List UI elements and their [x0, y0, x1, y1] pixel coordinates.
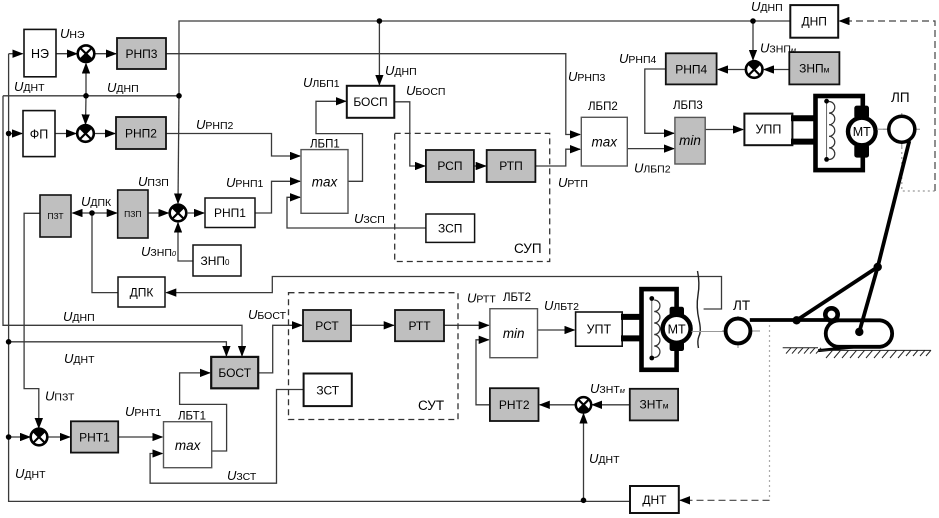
- svg-text:max: max: [175, 438, 202, 453]
- svg-text:СУП: СУП: [514, 241, 542, 256]
- svg-text:ДНП: ДНП: [801, 15, 826, 29]
- label ЛБТ1: [178, 411, 206, 423]
- svg-text:UДНП: UДНП: [107, 80, 139, 95]
- svg-text:UЛБП1: UЛБП1: [303, 75, 340, 90]
- svg-text:UДНП: UДНП: [63, 309, 95, 324]
- svg-text:UДНТ: UДНТ: [589, 451, 620, 466]
- rope junction to pivot: [797, 267, 878, 320]
- label СУП: [514, 241, 542, 256]
- block ЛБП3 min: [675, 117, 705, 164]
- drum break brace: [697, 271, 700, 348]
- svg-text:СУТ: СУТ: [418, 398, 444, 413]
- svg-text:ФП: ФП: [30, 128, 49, 142]
- label UДНТ top left: [14, 79, 45, 94]
- svg-text:min: min: [679, 133, 701, 148]
- wire РНП3 output UРНП3 to ЛБП2: [166, 54, 580, 135]
- block РТТ: [395, 310, 444, 341]
- block РСТ: [303, 310, 351, 341]
- svg-text:UБОСП: UБОСП: [406, 83, 445, 98]
- svg-text:UЗСП: UЗСП: [354, 211, 385, 226]
- wire ДПК output up to УДПК dot: [92, 213, 118, 293]
- label UРТТ: [467, 291, 496, 306]
- wire РНТ2 output to ЛБТ2: [476, 340, 490, 405]
- wire ЗСП output UЗСП to ЛБП1: [287, 197, 426, 228]
- wire dot УДПК to ПЗП: [92, 212, 117, 214]
- block БОСП: [347, 86, 395, 118]
- wire ЛБП3 output to УПП: [705, 129, 743, 131]
- wire UДНТ dot to sum5: [9, 436, 30, 438]
- block ПЗТ: [40, 195, 71, 237]
- block РНТ2: [490, 388, 539, 421]
- svg-text:UДПК: UДПК: [81, 194, 112, 209]
- scraper body: [818, 308, 892, 350]
- wire sum3 to РНП1: [188, 212, 204, 214]
- block РНП3: [117, 38, 166, 69]
- svg-text:ЛП: ЛП: [891, 90, 910, 105]
- wire БОСТ output UБОСТ to РСТ: [258, 325, 302, 373]
- svg-text:РНТ1: РНТ1: [79, 431, 110, 445]
- svg-text:UЗНПм: UЗНПм: [760, 41, 796, 56]
- wire UДНП down to sum3: [178, 96, 179, 204]
- wire ЗСТ output UЗСТ to ЛБТ1: [150, 390, 304, 484]
- label СУТ: [418, 398, 444, 413]
- block ДНП: [790, 5, 838, 38]
- label UЛБП1: [303, 75, 340, 90]
- svg-text:МТ: МТ: [668, 322, 686, 336]
- svg-text:UДНП: UДНП: [751, 0, 783, 14]
- rope ЛТ to scraper: [750, 318, 827, 322]
- svg-text:UДНТ: UДНТ: [64, 351, 95, 366]
- wire ЛБТ1 output to БОСТ: [180, 373, 227, 451]
- wire sum1 to РНП3: [95, 53, 116, 55]
- block БОСТ: [211, 357, 258, 388]
- wire UДНП left rail to БОСТ: [3, 96, 242, 356]
- svg-text:НЭ: НЭ: [31, 47, 49, 61]
- label UДНТ middle left: [64, 351, 95, 366]
- wire ПЗТ output UПЗТ to sum5: [24, 213, 40, 428]
- svg-text:UЗСТ: UЗСТ: [227, 468, 257, 483]
- label ЛП: [891, 90, 910, 105]
- wire sum4 to РНП4: [718, 69, 745, 71]
- svg-text:UДНП: UДНП: [385, 63, 417, 78]
- label UЗНПм: [760, 41, 796, 56]
- label UДПК: [81, 194, 112, 209]
- wire sum5 to РНТ1: [47, 436, 70, 438]
- svg-text:УПП: УПП: [755, 123, 781, 137]
- svg-text:UРНП4: UРНП4: [619, 51, 657, 66]
- svg-text:ЗНТм: ЗНТм: [639, 398, 668, 412]
- label UДНП row1: [107, 80, 139, 95]
- label UНЭ: [60, 26, 85, 41]
- summing junction sum2: [77, 125, 94, 142]
- wire UДНП up into sum1: [85, 64, 87, 96]
- svg-text:UБОСТ: UБОСТ: [248, 307, 287, 322]
- wire dot УДПК to ПЗТ: [73, 212, 93, 214]
- label ЛБТ2: [503, 292, 531, 304]
- svg-text:UДНТ: UДНТ: [14, 79, 45, 94]
- block ЗНТм: [630, 389, 678, 421]
- shaft link МТ-ЛТ: [692, 331, 725, 333]
- wire ЛБП1 output UЛБП1 to БОСП: [316, 101, 363, 181]
- svg-text:ЗНПм: ЗНПм: [799, 62, 830, 76]
- wire UДНП top rail y21: [179, 21, 790, 96]
- wire РНП4 output UРНП4 to ЛБП3: [645, 69, 674, 133]
- svg-text:UРНП3: UРНП3: [568, 69, 606, 84]
- label UРНП4: [619, 51, 657, 66]
- wire ФП to sum2: [55, 133, 76, 135]
- label UДНТ bottom left: [15, 466, 46, 481]
- rope pivot dots: [792, 263, 882, 336]
- wire НЭ to sum1: [56, 53, 77, 55]
- wire sum2 to РНП2: [94, 133, 115, 135]
- block ДПК: [118, 277, 165, 307]
- svg-text:РТП: РТП: [499, 159, 522, 173]
- dashed feedback ДНП from pulley ЛП: [840, 21, 936, 191]
- svg-text:РНТ2: РНТ2: [499, 398, 530, 412]
- label UРНП3: [568, 69, 606, 84]
- label UРНТ1: [125, 404, 161, 419]
- label UЛБП2: [634, 161, 671, 176]
- block ДНТ: [630, 486, 679, 513]
- svg-text:min: min: [503, 326, 525, 341]
- wire ЛБП2 output to ЛБП3: [627, 148, 674, 150]
- label UДНТ near sum6: [589, 451, 620, 466]
- label UБОСП: [406, 83, 445, 98]
- wire РТП output UРТП to ЛБП2: [535, 149, 580, 166]
- wire UДНП horizontal y96: [3, 95, 179, 97]
- wire sum1 down to sum2: [85, 96, 88, 125]
- svg-text:ЛБП2: ЛБП2: [588, 101, 618, 113]
- wire РНП2 output UРНП2 to ЛБП1: [166, 134, 300, 157]
- label UЗНП0: [141, 244, 177, 259]
- svg-text:РСП: РСП: [437, 159, 462, 173]
- wire РНТ1 output UРНТ1 to ЛБТ1: [118, 436, 162, 438]
- wire mechanical link drum to ДПК: [166, 277, 721, 310]
- label UДНП above БОСП: [385, 63, 417, 78]
- svg-text:ЛБТ1: ЛБТ1: [178, 411, 206, 423]
- label UДНП top right: [751, 0, 783, 14]
- summing junction sum4: [746, 61, 763, 78]
- block ЛБТ2 min: [490, 309, 538, 358]
- block НЭ: [24, 29, 56, 76]
- label UЗСТ: [227, 468, 257, 483]
- wire UДНТ up into sum6: [583, 414, 585, 501]
- wire into НЭ: [9, 53, 23, 55]
- label UДНП middle left: [63, 309, 95, 324]
- svg-text:UРНТ1: UРНТ1: [125, 404, 161, 419]
- block ЗСТ: [304, 374, 352, 407]
- svg-text:ЛБП3: ЛБП3: [673, 100, 703, 112]
- svg-text:ДПК: ДПК: [130, 286, 154, 300]
- wire РТТ output UРТТ to ЛБТ2: [444, 324, 489, 326]
- svg-text:РТТ: РТТ: [408, 319, 431, 333]
- motor Т assembly: [621, 289, 691, 370]
- summing junction sum6: [576, 397, 591, 412]
- svg-text:РНП4: РНП4: [675, 63, 707, 77]
- label ЛБП3: [673, 100, 703, 112]
- svg-text:РНП1: РНП1: [214, 206, 246, 220]
- block РСП: [426, 150, 474, 182]
- pulley ЛП: [877, 113, 920, 147]
- wire ЗНП0 to sum3: [178, 223, 193, 261]
- block УПП: [744, 114, 792, 146]
- label ЛБП2: [588, 101, 618, 113]
- block УПТ: [576, 312, 623, 346]
- summing junction sum5: [31, 429, 48, 446]
- svg-text:ЛБП1: ЛБП1: [310, 139, 340, 151]
- block ПЗП: [118, 190, 148, 238]
- label UЛБТ2: [544, 298, 579, 313]
- svg-text:UРНП2: UРНП2: [196, 117, 234, 132]
- label UЗСП: [354, 211, 385, 226]
- rope ЛП down: [878, 141, 910, 267]
- ground line and hatching: [783, 348, 931, 358]
- summing junction sum3: [170, 205, 187, 222]
- block ЗНПм: [789, 52, 839, 84]
- wire РСТ to РТТ: [351, 324, 394, 326]
- svg-text:ЗСП: ЗСП: [438, 222, 462, 236]
- svg-text:UРТП: UРТП: [558, 175, 588, 190]
- block РТП: [487, 150, 536, 182]
- dashed box СУП: [395, 133, 550, 261]
- wire РНП1 output UРНП1 to ЛБП1: [255, 181, 300, 213]
- wire UДНТ left rail: [9, 54, 630, 502]
- summing junction sum1: [78, 45, 95, 62]
- svg-text:ПЗП: ПЗП: [124, 209, 141, 219]
- svg-text:UЗНП0: UЗНП0: [141, 244, 177, 259]
- label UРНП1: [226, 175, 264, 190]
- wire UДНП drop to sum4: [752, 21, 754, 60]
- svg-text:max: max: [592, 135, 619, 150]
- wire РСП to РТП: [474, 165, 486, 167]
- svg-text:UДНТ: UДНТ: [15, 466, 46, 481]
- dashed box СУТ: [289, 293, 459, 420]
- svg-text:ПЗТ: ПЗТ: [47, 211, 63, 221]
- svg-text:UЗНТм: UЗНТм: [590, 381, 625, 396]
- svg-text:max: max: [312, 175, 339, 190]
- wire ЛБТ2 output UЛБТ2 to УПТ: [538, 329, 575, 331]
- svg-text:UПЗТ: UПЗТ: [45, 389, 75, 404]
- label UБОСТ: [248, 307, 287, 322]
- block РНП2: [116, 117, 166, 149]
- pulley ЛТ: [722, 316, 760, 348]
- label UРНП2: [196, 117, 234, 132]
- label ЛТ: [733, 298, 750, 313]
- wire UДНП drop to БОСП: [378, 21, 380, 85]
- label ЛБП1: [310, 139, 340, 151]
- svg-text:ДНТ: ДНТ: [642, 493, 667, 507]
- svg-text:БОСП: БОСП: [353, 95, 387, 109]
- block ЛБТ1 max: [164, 422, 212, 468]
- svg-text:UРНП1: UРНП1: [226, 175, 264, 190]
- block ФП: [23, 111, 55, 157]
- wire ПЗП to sum3: [148, 212, 168, 214]
- svg-text:UПЗП: UПЗП: [138, 174, 169, 189]
- block ЛБП2 max: [581, 117, 627, 166]
- block ЗСП: [426, 214, 475, 242]
- svg-text:УПТ: УПТ: [587, 323, 612, 337]
- svg-text:РНП3: РНП3: [126, 47, 158, 61]
- wire into ФП: [9, 133, 22, 135]
- wire UДНТ middle to БОСТ: [9, 342, 227, 356]
- svg-text:UЛБТ2: UЛБТ2: [544, 298, 579, 313]
- dashed feedback ДНТ from rope: [680, 320, 769, 500]
- svg-text:БОСТ: БОСТ: [218, 366, 251, 380]
- block ЛБП1 max: [301, 150, 348, 214]
- block РНП4: [666, 53, 717, 84]
- wire ЗНТм to sum6: [592, 404, 630, 406]
- block ЗНП0: [193, 245, 241, 276]
- label UПЗП: [138, 174, 169, 189]
- svg-text:ЛБТ2: ЛБТ2: [503, 292, 531, 304]
- wire sum6 to РНТ2: [540, 404, 576, 406]
- label UПЗТ: [45, 389, 75, 404]
- svg-text:UРТТ: UРТТ: [467, 291, 496, 306]
- svg-text:ЗСТ: ЗСТ: [316, 384, 339, 398]
- svg-text:UНЭ: UНЭ: [60, 26, 85, 41]
- wire ЗНПм to sum4: [764, 69, 789, 71]
- label UЗНТм: [590, 381, 625, 396]
- rope junction to scraper: [859, 267, 877, 332]
- motor П assembly: [791, 96, 876, 170]
- svg-text:ЛТ: ЛТ: [733, 298, 750, 313]
- svg-text:РНП2: РНП2: [125, 127, 157, 141]
- svg-text:РСТ: РСТ: [315, 319, 339, 333]
- block РНП1: [205, 198, 255, 228]
- svg-text:МТ: МТ: [853, 125, 871, 139]
- label UРТП: [558, 175, 588, 190]
- wire БОСП output UБОСП to РСП: [394, 102, 425, 166]
- svg-text:UЛБП2: UЛБП2: [634, 161, 671, 176]
- block РНТ1: [71, 421, 118, 452]
